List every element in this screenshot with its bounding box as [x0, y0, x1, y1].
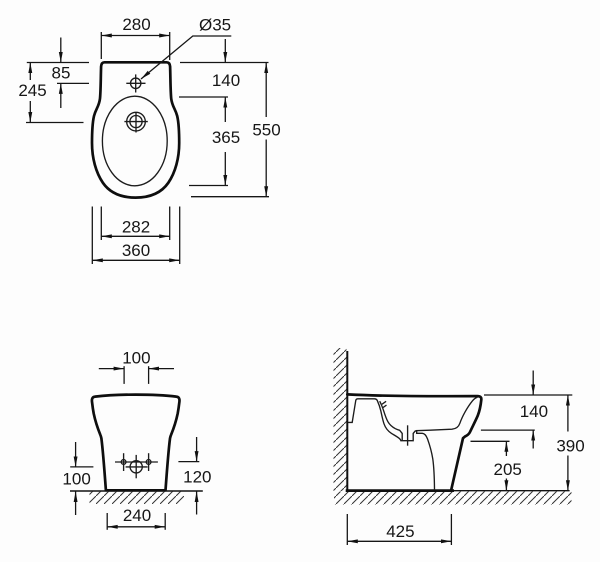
svg-text:100: 100	[122, 348, 150, 367]
svg-text:205: 205	[494, 460, 522, 479]
svg-text:245: 245	[18, 81, 46, 100]
svg-text:550: 550	[252, 121, 280, 140]
svg-text:360: 360	[122, 241, 150, 260]
svg-text:140: 140	[520, 402, 548, 421]
svg-text:390: 390	[556, 436, 584, 455]
svg-text:425: 425	[386, 522, 414, 541]
svg-text:282: 282	[122, 217, 150, 236]
svg-text:120: 120	[183, 468, 211, 487]
svg-text:100: 100	[62, 470, 90, 489]
svg-text:365: 365	[212, 128, 240, 147]
svg-text:85: 85	[52, 64, 71, 83]
svg-text:Ø35: Ø35	[199, 16, 231, 35]
svg-text:280: 280	[122, 15, 150, 34]
svg-text:140: 140	[212, 71, 240, 90]
svg-text:240: 240	[123, 506, 151, 525]
